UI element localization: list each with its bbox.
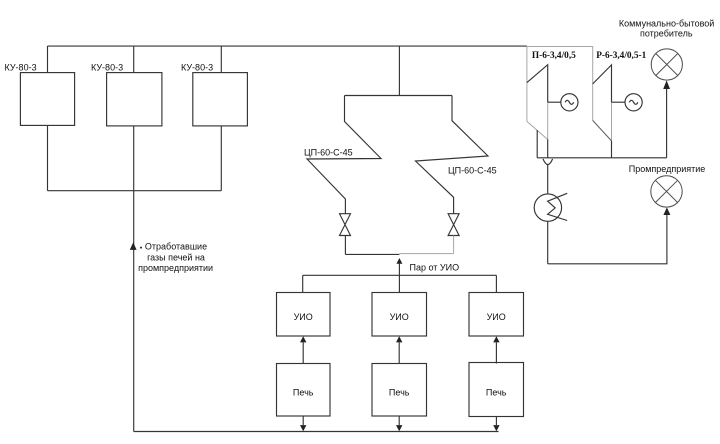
generator G1 [561,94,578,111]
wire: heat exchanger outlet down [547,221,549,263]
svg-text:Печь: Печь [389,388,410,398]
turbine P-6-3,4/0,5 [527,65,548,103]
svg-text:УИО: УИО [487,312,506,322]
svg-text:КУ-80-3: КУ-80-3 [181,62,213,72]
wire: drop to boiler 1 [47,46,49,73]
wire: heat supply header to consumers [537,157,666,159]
turbine CP-60-S-45 left (zigzag) [307,96,381,214]
consumer: industrial enterprise circle [651,176,682,207]
unit UIO 3 [469,293,524,337]
wire: boiler 1 down stub [47,126,49,191]
svg-text:ЦП-60-С-45: ЦП-60-С-45 [304,148,353,158]
wire: gray feed to turbine R (left edge) [592,46,594,120]
wire+arrow: furnace 3 to flue bus [495,417,497,426]
wire: gas collector [48,190,222,192]
boiler KU-80-3 #3 [193,73,248,126]
wire: UIO header bus [303,274,497,276]
wire: right valve outlet [453,236,455,254]
arrow: steam from UIO up [396,258,402,264]
svg-text:промпредприятии: промпредприятии [138,263,213,273]
wire+arrow: furnace 1 to UIO 1 [302,343,304,364]
unit UIO 2 [372,293,427,337]
consumer: communal circle [651,49,682,80]
valve left [340,214,351,236]
furnace 3 [469,363,524,417]
wire: to industrial consumer [548,215,667,264]
wire: drop to boiler 3 [220,46,222,73]
wire: P extraction down [536,130,538,158]
wire: valve outlet connector right half [399,253,453,255]
svg-text:УИО: УИО [294,312,313,322]
boiler KU-80-3 #2 [107,73,162,126]
svg-text:Коммунально-бытовой: Коммунально-бытовой [619,18,714,28]
wire: drop from bus to CP turbines header [398,46,400,96]
svg-text:Печь: Печь [293,388,314,398]
boiler KU-80-3 #1 [20,73,74,126]
wire: top steam bus gray segment to P/R turbines [527,46,593,48]
svg-text:КУ-80-3: КУ-80-3 [5,62,37,72]
arrow: into industrial consumer [663,207,670,215]
wire: drop to UIO 1 [302,275,304,292]
wire: valve outlet connector left half [345,253,399,255]
heat exchanger (network heater) [534,194,561,221]
wire: bottom flue bus [134,431,499,433]
arrow: exhaust gases up [130,242,137,250]
arrow: into communal consumer [663,80,670,89]
wire: drop to boiler 2 [133,46,135,73]
wire: steam from UIO riser [398,263,400,275]
wire+arrow: furnace 1 to flue bus [302,416,304,425]
svg-text:потребитель: потребитель [640,28,693,38]
wire: top steam bus [48,45,527,47]
wire: drop to UIO 2 [398,275,400,292]
turbine CP-60-S-45 right (zigzag) [416,96,489,214]
svg-text:Промпредприятие: Промпредприятие [629,164,706,174]
svg-text:УИО: УИО [390,312,409,322]
wire: long gas line from boiler 2 to bottom flue bus [133,127,135,432]
wire: boiler 3 down stub [220,127,222,191]
svg-text:Отработавшие: Отработавшие [145,242,207,252]
wire hop semicircle [543,159,553,165]
wire: left valve outlet [344,236,346,255]
svg-text:Р-6-3,4/0,5-1: Р-6-3,4/0,5-1 [596,51,646,61]
svg-text:газы печей на: газы печей на [147,252,205,262]
svg-text:КУ-80-3: КУ-80-3 [91,62,123,72]
turbine R-6-3,4/0,5-1 [593,65,612,102]
svg-text:Печь: Печь [486,388,507,398]
wire: R generator stub [612,101,626,103]
wire: R exhaust down to heat header [611,141,613,158]
wire+arrow: furnace 3 to UIO 3 [495,343,497,364]
svg-text:Пар от УИО: Пар от УИО [410,263,460,273]
wire+arrow: furnace 2 to UIO 2 [398,343,400,364]
wire+arrow: furnace 2 to flue bus [398,416,400,425]
wire: P exhaust to heat exchanger (with hop) [547,139,549,157]
svg-text:П-6-3,4/0,5: П-6-3,4/0,5 [532,51,576,61]
svg-text:ЦП-60-С-45: ЦП-60-С-45 [448,166,497,176]
furnace 2 [372,364,427,417]
label: dot [140,247,142,249]
wire: P generator stub [548,101,561,103]
furnace 1 [277,364,331,417]
generator G2 [625,94,642,111]
valve right [448,214,459,236]
wire: drop to UIO 3 [495,275,497,292]
wire: gray feed to turbine P (left edge) [526,46,528,122]
wire: riser to communal consumer [666,89,668,158]
unit UIO 1 [277,293,331,337]
wire: CP turbines header [345,95,453,97]
